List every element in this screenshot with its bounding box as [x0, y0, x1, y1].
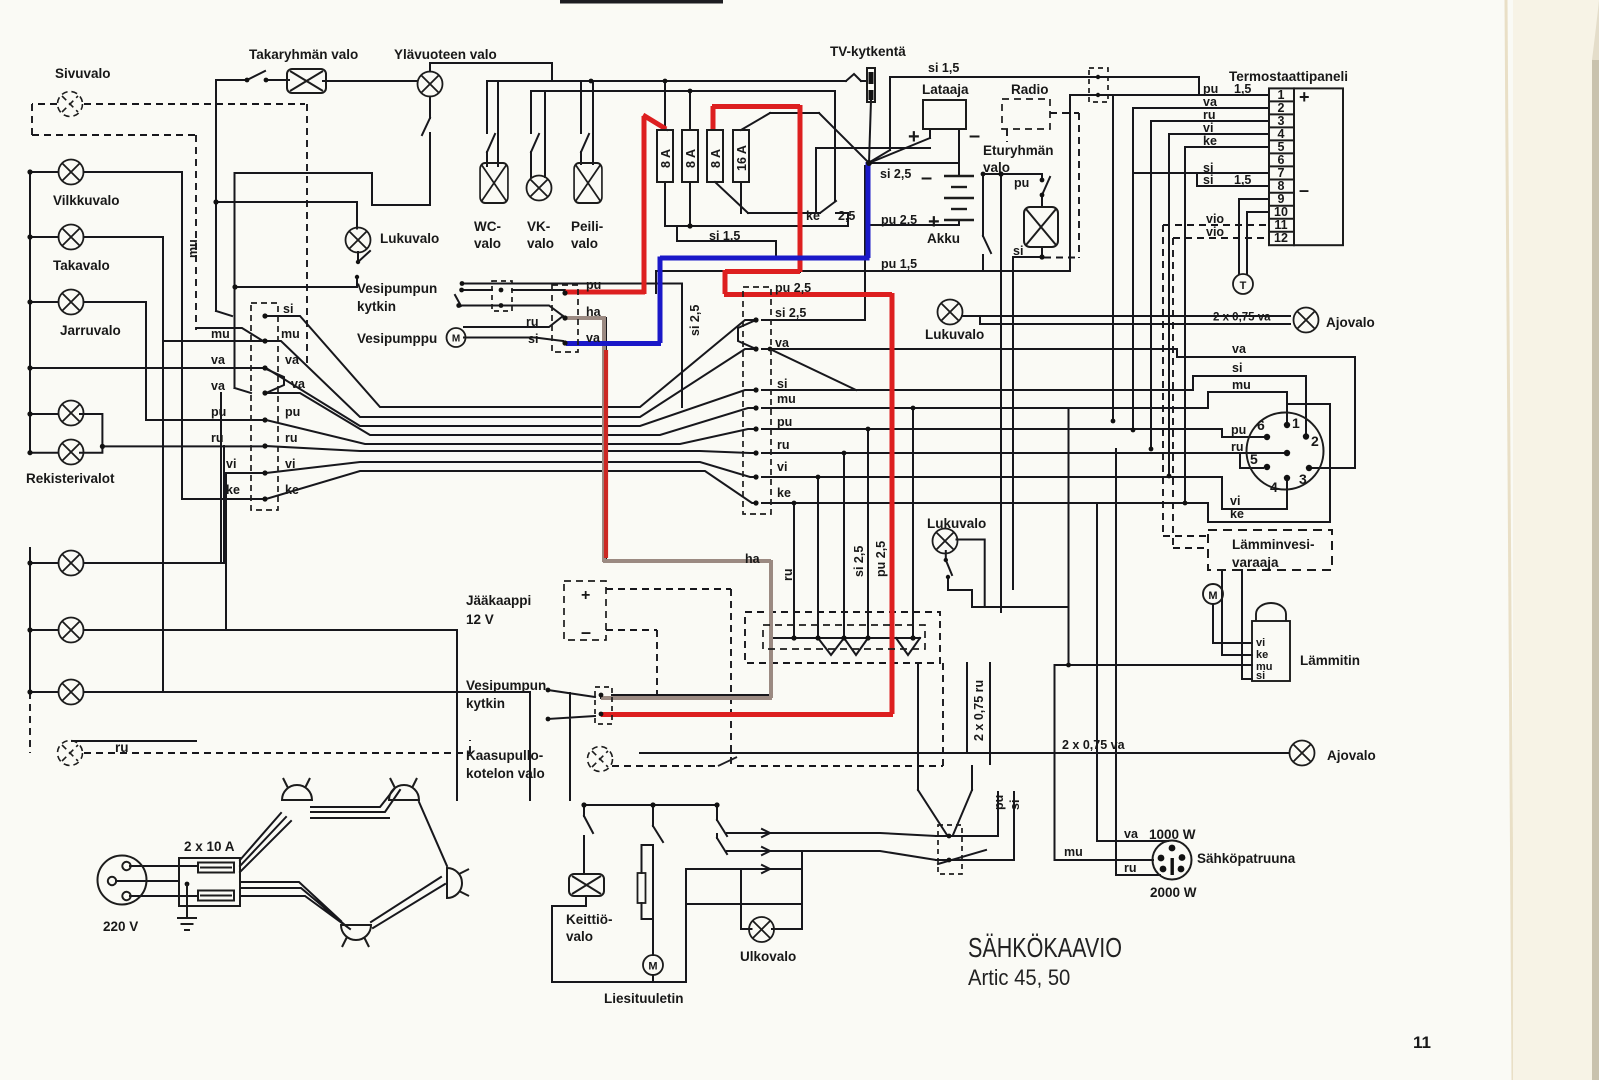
svg-text:vi: vi	[1256, 637, 1265, 649]
svg-text:pu 2,5: pu 2,5	[874, 541, 888, 577]
svg-text:valo: valo	[474, 236, 501, 251]
svg-text:8 A: 8 A	[709, 149, 723, 168]
svg-text:Rekisterivalot: Rekisterivalot	[26, 471, 115, 486]
svg-text:va: va	[775, 336, 790, 350]
svg-text:pu 2,5: pu 2,5	[775, 281, 811, 295]
svg-text:8 A: 8 A	[659, 149, 673, 168]
svg-text:Takavalo: Takavalo	[53, 258, 110, 273]
svg-text:valo: valo	[566, 929, 593, 944]
svg-text:mu: mu	[281, 327, 300, 341]
svg-text:va: va	[211, 379, 226, 393]
svg-text:si: si	[283, 302, 293, 316]
svg-text:–: –	[969, 125, 980, 147]
svg-text:pu: pu	[992, 795, 1006, 810]
svg-text:pu: pu	[586, 278, 601, 292]
svg-text:WC-: WC-	[474, 219, 501, 234]
svg-text:pu: pu	[1231, 423, 1246, 437]
svg-text:16 A: 16 A	[735, 145, 749, 171]
svg-text:si: si	[1203, 173, 1213, 187]
svg-text:vi: vi	[1203, 121, 1213, 135]
svg-text:7: 7	[1278, 166, 1285, 180]
svg-text:ha: ha	[745, 552, 761, 566]
svg-text:ru: ru	[211, 431, 224, 445]
svg-text:valo: valo	[527, 236, 554, 251]
svg-text:Lämminvesi-: Lämminvesi-	[1232, 537, 1315, 552]
svg-text:va: va	[291, 377, 306, 391]
svg-text:Vilkkuvalo: Vilkkuvalo	[53, 193, 120, 208]
svg-text:mu: mu	[211, 327, 230, 341]
svg-text:Lataaja: Lataaja	[922, 82, 969, 97]
svg-text:si: si	[1008, 800, 1022, 810]
svg-text:5: 5	[1250, 451, 1258, 467]
svg-text:M: M	[648, 961, 657, 973]
svg-text:valo: valo	[983, 160, 1010, 175]
svg-text:ru: ru	[285, 431, 298, 445]
svg-text:kytkin: kytkin	[357, 299, 396, 314]
svg-text:ru: ru	[781, 569, 795, 582]
svg-text:12: 12	[1274, 231, 1288, 245]
svg-text:2 x 0,75 va: 2 x 0,75 va	[1062, 738, 1126, 752]
svg-text:VK-: VK-	[527, 219, 550, 234]
svg-text:va: va	[1232, 342, 1247, 356]
svg-text:Jarruvalo: Jarruvalo	[60, 323, 121, 338]
svg-text:12 V: 12 V	[466, 612, 494, 627]
svg-text:2 x 0,75 ru: 2 x 0,75 ru	[972, 680, 986, 741]
svg-text:Kaasupullo-: Kaasupullo-	[466, 748, 543, 763]
svg-text:1,5: 1,5	[1234, 173, 1251, 187]
svg-text:pu: pu	[211, 405, 226, 419]
svg-text:va: va	[586, 331, 601, 345]
svg-text:4: 4	[1278, 127, 1285, 141]
svg-text:M: M	[1208, 590, 1217, 602]
svg-text:ru: ru	[1124, 861, 1137, 875]
svg-text:ke: ke	[777, 486, 791, 500]
svg-text:Artic 45, 50: Artic 45, 50	[968, 966, 1070, 990]
svg-text:M: M	[452, 334, 460, 345]
svg-text:vi: vi	[285, 457, 295, 471]
svg-text:ru: ru	[1231, 440, 1244, 454]
svg-text:8 A: 8 A	[684, 149, 698, 168]
svg-text:ke: ke	[285, 483, 299, 497]
svg-text:si: si	[1256, 670, 1265, 682]
svg-text:T: T	[1240, 280, 1247, 292]
svg-text:TV-kytkentä: TV-kytkentä	[830, 44, 906, 59]
svg-text:varaaja: varaaja	[1232, 555, 1279, 570]
svg-text:Vesipumppu: Vesipumppu	[357, 331, 437, 346]
svg-text:Lämmitin: Lämmitin	[1300, 653, 1360, 668]
svg-text:ke: ke	[226, 483, 240, 497]
svg-text:Liesituuletin: Liesituuletin	[604, 991, 684, 1006]
svg-text:Radio: Radio	[1011, 82, 1049, 97]
svg-text:Ajovalo: Ajovalo	[1327, 748, 1376, 763]
svg-text:ru: ru	[526, 315, 539, 329]
svg-text:mu: mu	[1232, 378, 1251, 392]
svg-text:Eturyhmän: Eturyhmän	[983, 143, 1054, 158]
svg-text:si 2,5: si 2,5	[688, 305, 702, 336]
svg-text:mu: mu	[1064, 845, 1083, 859]
svg-text:–: –	[921, 167, 932, 189]
svg-text:1,5: 1,5	[1234, 82, 1251, 96]
svg-text:220 V: 220 V	[103, 919, 138, 934]
svg-text:ke: ke	[1256, 649, 1268, 661]
svg-text:mu: mu	[777, 392, 796, 406]
svg-text:5: 5	[1278, 140, 1285, 154]
svg-text:Peili-: Peili-	[571, 219, 603, 234]
svg-text:ru: ru	[777, 438, 790, 452]
svg-text:ke: ke	[1203, 134, 1217, 148]
svg-text:10: 10	[1274, 205, 1288, 219]
svg-text:8: 8	[1278, 179, 1285, 193]
svg-text:+: +	[908, 126, 920, 148]
svg-text:Ajovalo: Ajovalo	[1326, 315, 1375, 330]
svg-text:kotelon valo: kotelon valo	[466, 766, 545, 781]
svg-text:pu: pu	[1014, 176, 1029, 190]
svg-text:Vesipumpun: Vesipumpun	[466, 678, 546, 693]
svg-text:2 x 10 A: 2 x 10 A	[184, 839, 235, 854]
svg-text:2: 2	[1311, 433, 1319, 449]
svg-text:vi: vi	[777, 460, 787, 474]
svg-text:va: va	[285, 353, 300, 367]
svg-text:–: –	[1299, 180, 1309, 200]
svg-text:vi: vi	[226, 457, 236, 471]
svg-text:Sivuvalo: Sivuvalo	[55, 66, 111, 81]
svg-text:6: 6	[1278, 153, 1285, 167]
svg-text:9: 9	[1278, 192, 1285, 206]
svg-text:si: si	[1013, 244, 1023, 258]
svg-text:ke: ke	[806, 209, 820, 223]
svg-text:pu: pu	[1203, 82, 1218, 96]
svg-text:si 2,5: si 2,5	[880, 167, 911, 181]
svg-text:mu: mu	[186, 239, 200, 258]
svg-text:Lukuvalo: Lukuvalo	[927, 516, 986, 531]
svg-text:2 x 0,75 va: 2 x 0,75 va	[1213, 312, 1271, 324]
svg-text:Sähköpatruuna: Sähköpatruuna	[1197, 851, 1296, 866]
svg-text:3: 3	[1299, 471, 1307, 487]
svg-text:vi: vi	[1230, 494, 1240, 508]
svg-text:si 1,5: si 1,5	[928, 61, 959, 75]
svg-text:2: 2	[1278, 101, 1285, 115]
svg-text:vio: vio	[1206, 212, 1224, 226]
svg-text:va: va	[1124, 827, 1139, 841]
svg-text:4: 4	[1270, 479, 1278, 495]
svg-text:11: 11	[1413, 1033, 1431, 1052]
svg-text:+: +	[928, 211, 940, 233]
svg-text:Keittiö-: Keittiö-	[566, 912, 613, 927]
svg-text:ru: ru	[115, 740, 129, 755]
svg-text:ke: ke	[1230, 507, 1244, 521]
svg-text:vio: vio	[1206, 225, 1224, 239]
svg-text:ru: ru	[1203, 108, 1216, 122]
svg-text:2,5: 2,5	[838, 209, 855, 223]
svg-text:Lukuvalo: Lukuvalo	[925, 327, 984, 342]
svg-text:6: 6	[1257, 417, 1265, 433]
svg-text:pu 1,5: pu 1,5	[881, 257, 917, 271]
svg-text:+: +	[581, 587, 590, 604]
svg-text:va: va	[1203, 95, 1218, 109]
svg-text:valo: valo	[571, 236, 598, 251]
svg-text:1: 1	[1292, 415, 1300, 431]
svg-text:SÄHKÖKAAVIO: SÄHKÖKAAVIO	[968, 932, 1122, 963]
svg-text:Akku: Akku	[927, 231, 960, 246]
svg-text:si: si	[528, 332, 538, 346]
svg-text:1: 1	[1278, 88, 1285, 102]
svg-text:Ylävuoteen valo: Ylävuoteen valo	[394, 47, 497, 62]
svg-text:Takaryhmän valo: Takaryhmän valo	[249, 47, 358, 62]
svg-text:+: +	[1299, 87, 1310, 107]
svg-text:va: va	[211, 353, 226, 367]
svg-text:11: 11	[1274, 218, 1287, 232]
svg-text:si: si	[777, 377, 787, 391]
svg-text:–: –	[581, 622, 591, 642]
svg-text:si 2,5: si 2,5	[775, 306, 806, 320]
svg-text:2000 W: 2000 W	[1150, 885, 1197, 900]
svg-text:pu 2,5: pu 2,5	[881, 213, 917, 227]
svg-text:si 1,5: si 1,5	[709, 229, 740, 243]
svg-text:Vesipumpun: Vesipumpun	[357, 281, 437, 296]
svg-text:Jääkaappi: Jääkaappi	[466, 593, 531, 608]
svg-text:3: 3	[1278, 114, 1285, 128]
svg-text:kytkin: kytkin	[466, 696, 505, 711]
svg-text:Ulkovalo: Ulkovalo	[740, 949, 796, 964]
svg-text:1000 W: 1000 W	[1149, 827, 1196, 842]
svg-text:pu: pu	[285, 405, 300, 419]
svg-text:Lukuvalo: Lukuvalo	[380, 231, 439, 246]
svg-text:si: si	[1232, 361, 1242, 375]
svg-text:pu: pu	[777, 415, 792, 429]
svg-text:si 2,5: si 2,5	[852, 546, 866, 577]
svg-text:ha: ha	[586, 305, 602, 319]
